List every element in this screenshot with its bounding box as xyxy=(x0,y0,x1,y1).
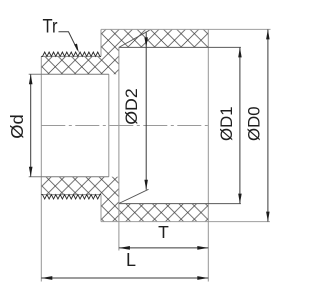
oblique extension bottom (phi D2) xyxy=(119,189,149,203)
svg-text:T: T xyxy=(158,222,169,242)
dimension T line xyxy=(119,247,208,249)
wire: socket inner surface top + phiD1 extension xyxy=(119,46,241,48)
dimension phi D1 line xyxy=(239,47,241,203)
wire: outer surface top + phiD0 extension xyxy=(101,28,271,30)
oblique extension top (phi D2) xyxy=(119,30,150,47)
wire: bore line top + phid extension xyxy=(29,73,109,75)
wire: bore shoulder edge xyxy=(108,74,110,177)
svg-text:L: L xyxy=(126,250,136,270)
wire: thread root line bottom xyxy=(41,194,101,196)
wire: thread root line top xyxy=(41,55,101,57)
dimension phi d line xyxy=(30,74,32,177)
wire: bore line bottom + phid extension xyxy=(29,176,109,178)
wire: socket inner surface bottom + phiD1 extension xyxy=(119,203,241,205)
wire: socket bottom face + T extension xyxy=(118,47,120,250)
centerline (dash-dot) xyxy=(41,125,210,127)
svg-text:Tr: Tr xyxy=(43,15,58,37)
thread Tr zigzag top xyxy=(41,52,101,56)
dimension L line xyxy=(41,277,208,279)
wire: left end face + L extension xyxy=(40,56,42,281)
leader line for Tr xyxy=(59,32,78,50)
svg-text:ØD1: ØD1 xyxy=(217,106,236,141)
svg-text:ØD0: ØD0 xyxy=(245,106,264,141)
wire: right mouth face + T/L extension xyxy=(207,29,209,281)
svg-text:ØD2: ØD2 xyxy=(122,88,141,125)
hatched wall section (top half) xyxy=(41,29,208,74)
wire: step face top xyxy=(100,29,102,56)
wire: outer surface bottom + phiD0 extension xyxy=(101,221,270,223)
dimension phi D2 line xyxy=(145,32,147,190)
hatched wall section (bottom half) xyxy=(41,177,208,222)
svg-text:Ød: Ød xyxy=(7,114,27,139)
dimension phi D0 line xyxy=(267,29,269,221)
wire: step face bottom xyxy=(100,195,102,222)
thread Tr zigzag bottom xyxy=(41,195,101,199)
